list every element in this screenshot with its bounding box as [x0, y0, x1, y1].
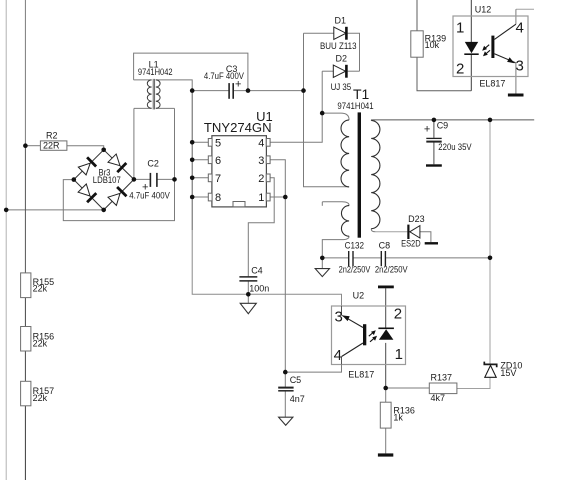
svg-text:22R: 22R [43, 141, 60, 151]
svg-text:4: 4 [334, 347, 342, 364]
svg-text:T1: T1 [353, 86, 370, 102]
svg-text:15V: 15V [500, 368, 516, 378]
svg-text:2: 2 [258, 173, 264, 185]
svg-text:2: 2 [456, 61, 464, 78]
svg-text:1k: 1k [393, 413, 403, 423]
svg-text:U2: U2 [353, 290, 365, 300]
svg-text:4.7uF 400V: 4.7uF 400V [129, 191, 170, 201]
svg-text:22k: 22k [33, 284, 48, 294]
svg-text:10k: 10k [425, 40, 440, 50]
svg-text:+: + [424, 123, 430, 135]
svg-text:4n7: 4n7 [290, 394, 305, 404]
svg-text:+: + [142, 181, 148, 193]
svg-text:9741H042: 9741H042 [138, 67, 173, 77]
svg-text:C5: C5 [290, 375, 302, 385]
svg-text:C132: C132 [345, 240, 364, 250]
svg-text:22k: 22k [33, 338, 48, 348]
svg-text:D23: D23 [408, 214, 425, 224]
svg-text:3: 3 [258, 155, 264, 167]
svg-text:7: 7 [215, 173, 221, 185]
svg-text:9741H041: 9741H041 [337, 101, 373, 111]
svg-text:4: 4 [258, 137, 264, 149]
svg-text:5: 5 [215, 137, 221, 149]
svg-text:R137: R137 [431, 372, 453, 382]
svg-text:ES2D: ES2D [401, 238, 421, 248]
svg-text:8: 8 [215, 192, 221, 204]
svg-text:C2: C2 [147, 158, 159, 168]
svg-text:R2: R2 [46, 130, 58, 140]
svg-text:4k7: 4k7 [431, 393, 446, 403]
svg-text:4: 4 [516, 20, 524, 37]
svg-text:BUU Z113: BUU Z113 [320, 41, 357, 51]
svg-text:1: 1 [456, 20, 464, 37]
svg-text:3: 3 [516, 58, 524, 75]
svg-text:D2: D2 [336, 54, 348, 64]
svg-text:2: 2 [394, 306, 402, 323]
svg-text:220u 35V: 220u 35V [438, 142, 471, 152]
svg-text:1: 1 [258, 192, 264, 204]
svg-text:2n2/250V: 2n2/250V [339, 264, 371, 274]
svg-text:EL817: EL817 [479, 78, 505, 88]
svg-text:EL817: EL817 [348, 370, 374, 380]
svg-text:+: + [235, 79, 241, 91]
svg-text:22k: 22k [33, 393, 48, 403]
svg-text:LDB107: LDB107 [93, 175, 121, 185]
svg-text:C8: C8 [379, 240, 391, 250]
svg-text:100n: 100n [249, 284, 269, 294]
svg-text:1: 1 [395, 346, 403, 363]
svg-text:3: 3 [335, 309, 343, 326]
svg-text:6: 6 [215, 155, 221, 167]
svg-text:C9: C9 [437, 121, 449, 131]
svg-text:2n2/250V: 2n2/250V [375, 264, 408, 274]
svg-text:U12: U12 [475, 5, 492, 15]
svg-text:D1: D1 [335, 16, 347, 26]
svg-text:TNY274GN: TNY274GN [204, 120, 272, 135]
svg-text:UJ 35: UJ 35 [331, 82, 352, 92]
svg-text:C4: C4 [251, 266, 263, 276]
